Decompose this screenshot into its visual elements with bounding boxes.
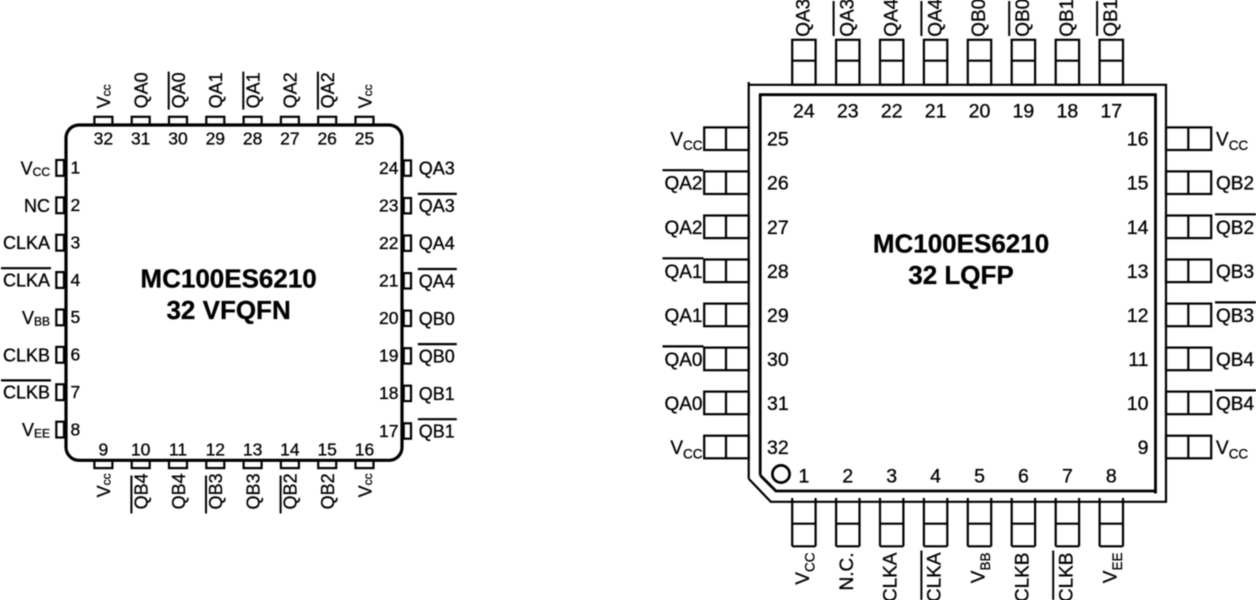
svg-text:14: 14 — [280, 440, 300, 460]
svg-text:CLKB: CLKB — [3, 345, 50, 365]
svg-text:QB4: QB4 — [169, 473, 189, 509]
svg-text:9: 9 — [99, 440, 109, 460]
svg-text:QB0: QB0 — [969, 0, 990, 37]
svg-text:Vcc: Vcc — [355, 473, 375, 497]
svg-text:32: 32 — [94, 128, 113, 148]
svg-text:20: 20 — [379, 308, 399, 328]
svg-text:26: 26 — [317, 128, 336, 148]
svg-text:3: 3 — [71, 233, 81, 253]
svg-text:Vcc: Vcc — [94, 473, 114, 497]
svg-text:19: 19 — [379, 346, 398, 366]
svg-text:15: 15 — [1127, 173, 1149, 195]
svg-text:QB4: QB4 — [1216, 394, 1254, 415]
svg-text:31: 31 — [131, 128, 150, 148]
svg-text:CLKA: CLKA — [925, 552, 946, 600]
svg-text:10: 10 — [1127, 393, 1149, 415]
svg-text:QA3: QA3 — [838, 0, 859, 37]
svg-text:3: 3 — [886, 465, 897, 487]
svg-text:QB2: QB2 — [281, 473, 301, 509]
svg-text:21: 21 — [925, 101, 947, 123]
svg-text:QA4: QA4 — [925, 0, 946, 37]
svg-text:2: 2 — [71, 195, 81, 215]
svg-text:QB4: QB4 — [1216, 350, 1254, 371]
svg-text:QB1: QB1 — [419, 422, 455, 442]
svg-text:29: 29 — [206, 128, 225, 148]
svg-text:QA4: QA4 — [881, 0, 902, 37]
svg-text:QA2: QA2 — [281, 72, 301, 108]
svg-text:QA4: QA4 — [419, 234, 455, 254]
svg-text:QB2: QB2 — [1216, 218, 1254, 239]
svg-text:23: 23 — [379, 196, 398, 216]
svg-text:16: 16 — [355, 440, 374, 460]
svg-text:32 VFQFN: 32 VFQFN — [166, 295, 290, 325]
svg-text:QB0: QB0 — [419, 346, 455, 366]
svg-text:QA1: QA1 — [664, 306, 702, 327]
svg-text:10: 10 — [131, 440, 151, 460]
svg-text:6: 6 — [71, 345, 81, 365]
svg-text:QA3: QA3 — [419, 159, 455, 179]
svg-text:QA4: QA4 — [419, 271, 455, 291]
svg-text:28: 28 — [767, 261, 789, 283]
svg-text:29: 29 — [767, 305, 789, 327]
svg-text:VCC: VCC — [670, 130, 702, 154]
svg-text:VCC: VCC — [1216, 130, 1248, 154]
svg-text:24: 24 — [793, 101, 815, 123]
svg-text:MC100ES6210: MC100ES6210 — [873, 229, 1049, 259]
svg-text:9: 9 — [1138, 437, 1149, 459]
svg-text:QA2: QA2 — [318, 72, 338, 108]
svg-text:1: 1 — [71, 158, 81, 178]
svg-text:Vcc: Vcc — [355, 84, 375, 108]
svg-text:16: 16 — [1127, 129, 1149, 151]
svg-text:24: 24 — [379, 158, 399, 178]
svg-text:QB2: QB2 — [318, 473, 338, 509]
svg-text:Vcc: Vcc — [94, 84, 114, 108]
svg-text:QB3: QB3 — [1216, 306, 1254, 327]
svg-text:QA2: QA2 — [664, 174, 702, 195]
svg-text:26: 26 — [767, 173, 789, 195]
svg-text:6: 6 — [1018, 465, 1029, 487]
svg-text:MC100ES6210: MC100ES6210 — [140, 264, 316, 294]
svg-text:QA0: QA0 — [664, 350, 702, 371]
svg-text:VCC: VCC — [21, 158, 51, 179]
svg-text:CLKB: CLKB — [1012, 553, 1033, 600]
svg-text:13: 13 — [1127, 261, 1149, 283]
svg-text:32: 32 — [767, 437, 789, 459]
svg-text:21: 21 — [379, 271, 398, 291]
svg-text:QA3: QA3 — [794, 0, 815, 37]
svg-text:QA0: QA0 — [664, 394, 702, 415]
svg-text:12: 12 — [1127, 305, 1149, 327]
svg-text:11: 11 — [1128, 349, 1148, 371]
svg-text:CLKA: CLKA — [881, 552, 902, 600]
svg-text:QA0: QA0 — [132, 72, 152, 108]
svg-text:CLKB: CLKB — [1056, 553, 1077, 600]
svg-text:12: 12 — [206, 440, 225, 460]
svg-text:CLKB: CLKB — [3, 383, 50, 403]
svg-text:VBB: VBB — [969, 553, 994, 584]
svg-text:8: 8 — [71, 419, 81, 439]
svg-text:23: 23 — [837, 101, 859, 123]
svg-text:CLKA: CLKA — [3, 271, 50, 291]
svg-text:QB0: QB0 — [1013, 0, 1034, 37]
svg-text:VBB: VBB — [22, 308, 50, 329]
svg-text:32 LQFP: 32 LQFP — [908, 260, 1013, 290]
svg-text:25: 25 — [355, 128, 374, 148]
svg-text:4: 4 — [930, 465, 941, 487]
svg-text:QB3: QB3 — [243, 473, 263, 509]
svg-text:30: 30 — [767, 349, 789, 371]
svg-text:22: 22 — [379, 233, 398, 253]
svg-text:7: 7 — [1062, 465, 1073, 487]
svg-text:VEE: VEE — [22, 420, 50, 441]
svg-text:28: 28 — [243, 128, 262, 148]
svg-text:QA3: QA3 — [419, 196, 455, 216]
svg-text:4: 4 — [71, 270, 81, 290]
svg-text:VEE: VEE — [1100, 553, 1125, 584]
svg-text:15: 15 — [317, 440, 336, 460]
svg-text:QA1: QA1 — [664, 262, 702, 283]
svg-text:14: 14 — [1127, 217, 1149, 239]
svg-text:VCC: VCC — [1216, 438, 1248, 462]
svg-text:QB0: QB0 — [419, 309, 455, 329]
svg-text:QA2: QA2 — [664, 218, 702, 239]
svg-text:18: 18 — [1057, 101, 1079, 123]
svg-text:7: 7 — [71, 382, 81, 402]
svg-text:17: 17 — [379, 421, 398, 441]
svg-text:5: 5 — [974, 465, 985, 487]
svg-text:20: 20 — [969, 101, 991, 123]
svg-text:QA1: QA1 — [206, 72, 226, 108]
svg-text:8: 8 — [1106, 465, 1117, 487]
svg-text:CLKA: CLKA — [3, 233, 50, 253]
svg-text:QB1: QB1 — [419, 384, 455, 404]
svg-text:QB2: QB2 — [1216, 174, 1254, 195]
svg-text:13: 13 — [243, 440, 262, 460]
svg-text:QB3: QB3 — [206, 473, 226, 509]
svg-text:1: 1 — [798, 465, 809, 487]
svg-text:QA0: QA0 — [169, 72, 189, 108]
svg-text:VCC: VCC — [670, 438, 702, 462]
svg-text:NC: NC — [24, 196, 50, 216]
svg-text:18: 18 — [379, 383, 398, 403]
svg-text:QB3: QB3 — [1216, 262, 1254, 283]
svg-text:31: 31 — [767, 393, 789, 415]
svg-text:27: 27 — [280, 128, 299, 148]
svg-text:17: 17 — [1100, 101, 1122, 123]
svg-text:N.C.: N.C. — [837, 553, 858, 591]
svg-text:5: 5 — [71, 307, 81, 327]
svg-text:27: 27 — [767, 217, 789, 239]
svg-text:25: 25 — [767, 129, 789, 151]
svg-text:30: 30 — [168, 128, 188, 148]
svg-text:QB1: QB1 — [1101, 0, 1122, 37]
svg-text:2: 2 — [842, 465, 853, 487]
svg-text:QA1: QA1 — [243, 72, 263, 108]
svg-text:19: 19 — [1013, 101, 1035, 123]
svg-text:QB4: QB4 — [132, 473, 152, 509]
svg-text:VCC: VCC — [793, 552, 818, 584]
svg-text:22: 22 — [881, 101, 903, 123]
svg-text:QB1: QB1 — [1057, 0, 1078, 37]
svg-text:11: 11 — [169, 440, 187, 460]
